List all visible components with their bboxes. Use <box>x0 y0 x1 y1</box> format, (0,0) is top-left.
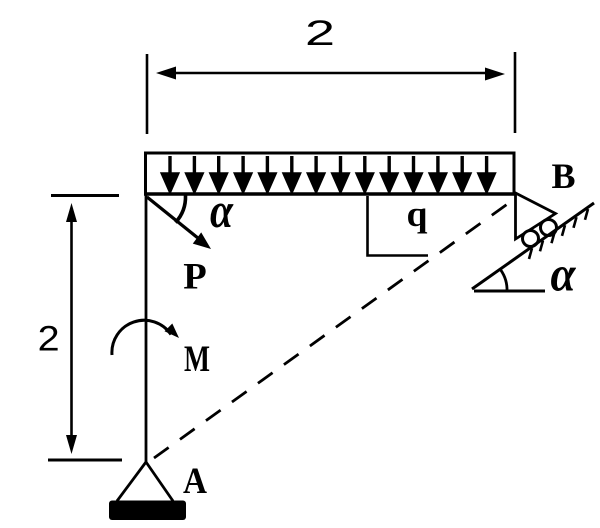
angle arc alpha at incline <box>501 270 507 292</box>
tick at support level <box>48 459 122 462</box>
incline surface line <box>472 203 594 289</box>
roller 1 <box>523 231 539 247</box>
support A ground block <box>109 501 186 521</box>
beam AB top member <box>144 192 516 196</box>
top dimension right arrowhead <box>485 68 505 81</box>
support A triangle <box>117 462 173 501</box>
roller 2 <box>541 220 557 236</box>
svg-text:α: α <box>210 182 234 238</box>
force P arrow <box>147 197 201 241</box>
top dimension line <box>166 72 496 75</box>
svg-text:A: A <box>183 461 207 502</box>
distributed load rectangle <box>146 153 515 194</box>
horizontal reference line at incline <box>474 290 545 293</box>
dashed line A to B <box>154 200 513 458</box>
moment M arc <box>112 320 171 355</box>
tick at beam level <box>51 194 119 197</box>
left dimension up arrowhead <box>66 203 77 222</box>
column member (left vertical) <box>145 194 148 462</box>
left dimension down arrowhead <box>66 435 77 454</box>
extension line left <box>146 54 149 134</box>
force P arrowhead <box>193 232 211 249</box>
svg-text:2: 2 <box>38 320 60 359</box>
top dimension left arrowhead <box>156 67 176 80</box>
incline hatching <box>529 209 588 259</box>
left dimension line <box>70 210 73 446</box>
support B triangle <box>516 193 556 239</box>
svg-text:M: M <box>184 339 210 380</box>
svg-text:α: α <box>551 246 577 302</box>
moment M arrowhead <box>165 324 180 339</box>
svg-text:q: q <box>407 194 428 234</box>
svg-text:B: B <box>551 156 575 196</box>
load arrows q <box>163 156 495 191</box>
svg-text:P: P <box>183 257 207 298</box>
q leader bracket <box>368 196 429 256</box>
angle arc alpha at P <box>176 196 186 223</box>
extension line right <box>514 52 517 133</box>
svg-text:2: 2 <box>305 14 335 53</box>
